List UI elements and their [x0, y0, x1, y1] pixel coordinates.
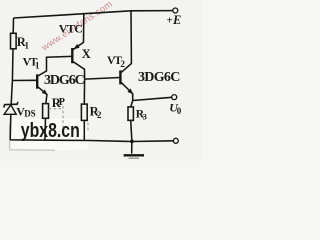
svg-text:+: + [167, 15, 173, 27]
svg-text:DS: DS [24, 109, 36, 119]
svg-text:P: P [59, 97, 65, 108]
svg-text:E: E [172, 13, 181, 27]
svg-text:3DG6C: 3DG6C [44, 73, 85, 88]
svg-text:X: X [82, 47, 91, 61]
svg-text:2: 2 [120, 60, 125, 70]
svg-text:2: 2 [97, 110, 102, 120]
svg-text:ybx8.cn: ybx8.cn [21, 119, 80, 142]
svg-text:0: 0 [177, 106, 182, 116]
svg-text:3: 3 [143, 112, 147, 122]
svg-text:VTC: VTC [59, 22, 83, 36]
svg-text:3DG6C: 3DG6C [138, 70, 180, 85]
svg-text:1: 1 [35, 61, 40, 71]
svg-text:1: 1 [25, 41, 30, 51]
